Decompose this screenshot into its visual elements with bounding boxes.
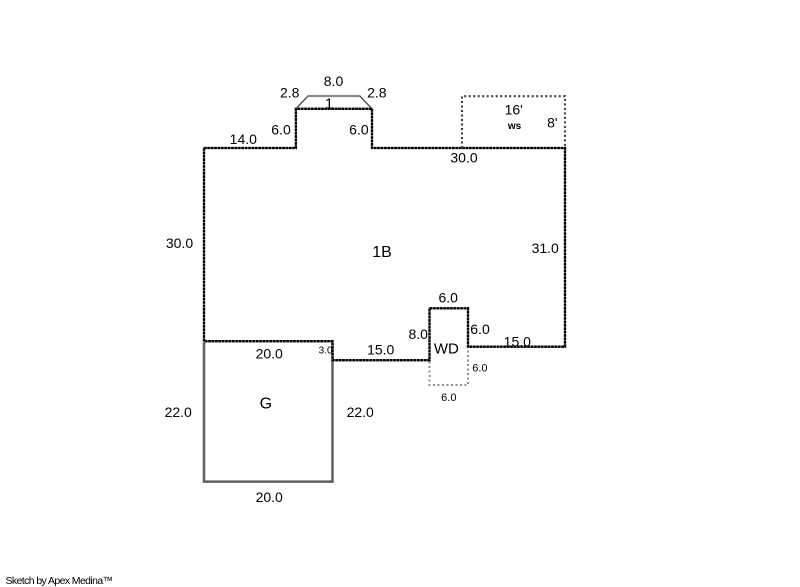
svg-text:2.8: 2.8 — [280, 85, 300, 101]
main dwelling outline 1B (black dashed) — [204, 109, 565, 360]
svg-text:6.0: 6.0 — [438, 290, 458, 306]
svg-text:G: G — [260, 396, 272, 413]
svg-text:6.0: 6.0 — [472, 363, 487, 375]
bay window top edge — [307, 95, 360, 97]
garage G outline (gray) — [204, 342, 333, 482]
svg-text:22.0: 22.0 — [347, 404, 374, 420]
main dwelling outline underlay — [204, 109, 565, 360]
svg-text:30.0: 30.0 — [450, 150, 477, 166]
svg-text:15.0: 15.0 — [367, 342, 394, 358]
svg-text:2.8: 2.8 — [367, 85, 387, 101]
svg-text:6.0: 6.0 — [349, 122, 369, 138]
svg-text:6.0: 6.0 — [271, 122, 291, 138]
svg-text:8': 8' — [547, 114, 557, 130]
svg-text:22.0: 22.0 — [165, 404, 192, 420]
porch ws dotted outline — [462, 96, 565, 148]
svg-text:8.0: 8.0 — [408, 326, 428, 342]
svg-text:WD: WD — [434, 341, 459, 358]
bay window right diagonal — [360, 96, 372, 109]
svg-text:31.0: 31.0 — [532, 240, 559, 256]
WD dotted extension — [430, 348, 469, 385]
svg-text:3.0: 3.0 — [319, 346, 333, 357]
svg-text:Sketch by Apex Medina™: Sketch by Apex Medina™ — [6, 575, 113, 587]
svg-text:6.0: 6.0 — [441, 392, 456, 404]
bay window left diagonal — [296, 96, 308, 109]
svg-text:ws: ws — [507, 121, 522, 132]
svg-text:1B: 1B — [372, 244, 392, 261]
svg-text:14.0: 14.0 — [230, 131, 257, 147]
svg-text:8.0: 8.0 — [324, 73, 344, 89]
svg-text:20.0: 20.0 — [256, 489, 283, 505]
svg-text:6.0: 6.0 — [470, 321, 490, 337]
svg-text:15.0: 15.0 — [504, 333, 531, 349]
svg-text:30.0: 30.0 — [166, 235, 193, 251]
svg-text:1: 1 — [325, 96, 333, 113]
svg-text:16': 16' — [505, 102, 523, 118]
svg-text:20.0: 20.0 — [256, 346, 283, 362]
